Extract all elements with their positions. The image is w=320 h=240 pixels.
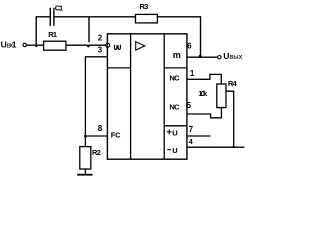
svg-text:R3: R3 [140, 2, 149, 11]
node B junction dot [87, 45, 90, 48]
svg-text:R1: R1 [48, 30, 57, 39]
wire C1 right plate to R3 left [54, 16, 135, 18]
resistor R3 [136, 14, 158, 23]
wire R3 right to corner and down to output node [157, 17, 200, 57]
svg-text:10k: 10k [198, 89, 208, 98]
op-amp U1 body [107, 34, 186, 159]
svg-text:Uвых: Uвых [223, 51, 242, 61]
junction pin4 wiper dot [233, 146, 235, 148]
resistor R4 potentiometer [217, 84, 226, 108]
svg-text:3: 3 [98, 45, 103, 54]
wire vertical pin3 node down to R2 [84, 56, 86, 146]
node FC junction dot [84, 135, 87, 138]
junction output node [199, 55, 202, 58]
svg-text:R2: R2 [92, 148, 101, 157]
label -U [167, 149, 171, 151]
resistor R1 [44, 41, 66, 50]
wire R2 to ground [84, 169, 86, 174]
R4 wiper to pin 4 net [226, 91, 234, 147]
svg-text:NC: NC [169, 74, 180, 83]
ground [77, 174, 92, 176]
capacitor C1 [50, 8, 54, 26]
pin 4 -U wire [187, 146, 245, 148]
svg-text:6: 6 [187, 41, 192, 50]
input terminal Uvx1 [23, 43, 26, 46]
pin 5 wire to R4 bottom [187, 108, 222, 118]
wire pin 3 [85, 56, 107, 58]
svg-text:U: U [172, 128, 177, 137]
pin 7 +U stub [187, 135, 211, 137]
pin 2 inverting input circle [106, 43, 110, 47]
svg-text:8: 8 [98, 124, 103, 133]
svg-text:5: 5 [187, 101, 192, 110]
wire input terminal to R1 [26, 44, 43, 46]
pin 1 wire to R4 top [187, 74, 221, 84]
node A junction dot [35, 45, 38, 48]
svg-text:FC: FC [111, 131, 121, 140]
wire input branch vertical [35, 16, 37, 45]
resistor R2 [80, 147, 91, 169]
wire R1 to pin 2 circle [66, 44, 106, 46]
omega symbol in left field [115, 45, 121, 50]
wire top net from input node to C1 left plate [36, 16, 50, 18]
amplifier triangle [136, 42, 145, 50]
svg-text:R4: R4 [228, 79, 238, 88]
wire vertical C1 net down toward pin 2 node (gap in scan) [88, 16, 90, 42]
svg-text:2: 2 [98, 34, 103, 43]
svg-text:U: U [172, 146, 177, 155]
wire pin 8 FC [85, 135, 107, 137]
pin 6 output wire [187, 56, 218, 58]
output terminal Uvyh [218, 56, 221, 59]
svg-text:7: 7 [189, 125, 194, 134]
svg-text:C1: C1 [55, 4, 63, 13]
svg-text:m: m [173, 50, 181, 60]
label +U [167, 130, 172, 135]
svg-text:Uвх1: Uвх1 [1, 39, 17, 49]
svg-text:NC: NC [169, 102, 180, 111]
svg-text:1: 1 [190, 69, 195, 78]
